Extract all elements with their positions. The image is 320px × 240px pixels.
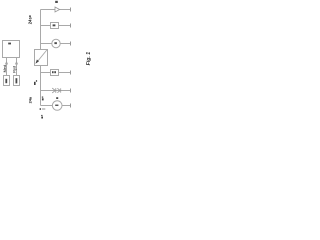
- wire row 1: [41, 9, 71, 11]
- mark inside G1: [54, 42, 57, 44]
- vertical bus wire lower: [40, 66, 42, 106]
- svg-text:Med: Med: [3, 65, 7, 72]
- terminal tick row 1: [70, 8, 72, 12]
- label caret above source: [56, 97, 58, 99]
- wire row 5: [41, 90, 71, 92]
- svg-text:24s: 24s: [28, 17, 33, 25]
- component box F1 on row 2: [51, 23, 59, 29]
- AC source circle V1: [52, 101, 62, 111]
- background: [0, 0, 92, 120]
- wire row 6 right: [62, 105, 71, 107]
- label inside P2 (rotated): [16, 78, 18, 83]
- svg-text:Ryd: Ryd: [13, 66, 17, 73]
- mark inside F2: [52, 71, 54, 73]
- sub-box P2: [14, 76, 20, 86]
- arrowhead of K1 diagonal: [35, 60, 39, 64]
- vertical bus wire upper: [40, 10, 42, 50]
- wire lead from U1 to box P2: [16, 58, 18, 76]
- label j2 beside bus: [42, 97, 43, 98]
- sub-box P1: [4, 76, 10, 86]
- terminal tick row 5: [70, 89, 72, 93]
- detector circle G1 on row 3: [52, 39, 60, 47]
- wire row 4: [41, 72, 71, 74]
- wire lead from U1 to box P1: [6, 58, 8, 76]
- label j1 beside bus: [34, 82, 36, 85]
- wire row 2: [41, 25, 71, 27]
- terminal tick row 6: [70, 104, 72, 108]
- label inside P1 (rotated): [5, 79, 7, 83]
- diode D2 on row 5: [57, 88, 60, 92]
- arrowhead up on P1 lead: [5, 62, 7, 65]
- tilde inside V1: [55, 105, 58, 106]
- mark inside F1: [53, 24, 56, 26]
- label above arrow A1: [55, 1, 58, 3]
- component box F2 on row 4: [51, 70, 59, 76]
- label dot + leader under corner: [40, 108, 42, 110]
- svg-text:24a: 24a: [28, 96, 32, 103]
- converter box K1 with diagonal: [35, 50, 48, 66]
- label j3 bottom: [41, 115, 42, 116]
- block U1 (large box upper left): [3, 41, 20, 58]
- diagonal of K1: [36, 50, 46, 63]
- arrowhead up on P2 lead: [15, 62, 17, 65]
- label inside U1: [8, 43, 11, 45]
- terminal tick row 2: [70, 24, 72, 28]
- wire row 3: [41, 43, 71, 45]
- arrow A1 on row 1: [55, 7, 60, 12]
- diode D1 on row 5: [52, 88, 55, 93]
- terminal tick row 4: [70, 71, 72, 75]
- terminal tick row 3: [70, 42, 72, 46]
- wire row 6 left: [41, 105, 53, 107]
- svg-text:Fig. 1: Fig. 1: [86, 52, 92, 66]
